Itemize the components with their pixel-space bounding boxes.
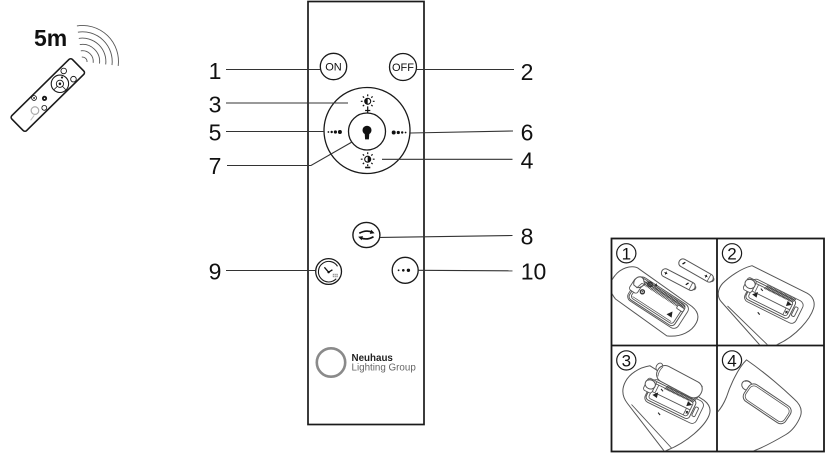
- svg-text:4: 4: [727, 351, 736, 370]
- line 8: [380, 236, 513, 238]
- line 4: [382, 158, 513, 160]
- dial outer (mini): [48, 71, 73, 96]
- numbers: [209, 58, 547, 285]
- svg-text:1: 1: [622, 244, 631, 263]
- brightness down icon: [361, 152, 375, 166]
- timer button: [316, 259, 342, 285]
- panel 3: sliding cover on: [623, 361, 710, 451]
- plus sign: [365, 108, 370, 113]
- dial outer circle: [324, 88, 410, 174]
- svg-text:5: 5: [209, 120, 222, 146]
- minus sign: [365, 167, 370, 169]
- signal waves from handheld remote: [77, 25, 119, 65]
- ON button: [320, 53, 346, 79]
- step number 4: [722, 351, 741, 370]
- step number 1: [617, 244, 636, 263]
- svg-text:8: 8: [521, 224, 534, 250]
- line 1: [226, 69, 320, 71]
- svg-text:6: 6: [521, 120, 534, 146]
- dial center dot: [58, 82, 62, 86]
- svg-text:10: 10: [521, 259, 547, 285]
- line 2: [417, 69, 515, 71]
- dial tick marks: [54, 84, 66, 96]
- line 5: [226, 131, 324, 133]
- ON button (mini): [60, 67, 68, 75]
- remote body: [10, 58, 85, 133]
- line 6: [411, 131, 514, 133]
- svg-text:OFF: OFF: [392, 62, 414, 74]
- svg-text:7: 7: [209, 153, 222, 179]
- brightness up icon: [361, 94, 375, 108]
- dial NE dot: [60, 76, 63, 79]
- OFF button (mini): [70, 75, 78, 83]
- svg-text:ON: ON: [325, 62, 342, 74]
- dial inner circle: [349, 113, 386, 150]
- small grid: [333, 274, 338, 277]
- logo ring (mini, gray): [30, 105, 41, 116]
- line 7: [227, 142, 352, 166]
- colour-cycle button: [353, 222, 380, 247]
- panel 4: cover closed: [712, 360, 801, 455]
- main remote body: [308, 2, 424, 425]
- panel 1: open compartment with two batteries: [611, 257, 716, 336]
- panel 2: batteries installed: [718, 266, 814, 346]
- clock hands: [324, 267, 332, 272]
- callout lines left: [226, 70, 514, 271]
- dial inner (mini): [55, 79, 65, 89]
- line 3: [226, 102, 348, 104]
- svg-text:5m: 5m: [34, 25, 67, 51]
- line 9: [226, 270, 316, 272]
- timer button (mini): [31, 95, 38, 102]
- Neuhaus logo ring: [317, 348, 345, 376]
- svg-text:3: 3: [209, 92, 222, 118]
- battery instruction panels grid: [612, 239, 825, 452]
- line 10: [418, 269, 512, 272]
- dots button: [392, 257, 418, 283]
- step number 2: [722, 244, 741, 263]
- bulb icon (center): [363, 126, 372, 140]
- svg-text:3: 3: [622, 351, 631, 370]
- OFF button: [390, 54, 417, 81]
- svg-text:1: 1: [209, 58, 222, 84]
- step number 3: [617, 351, 636, 370]
- svg-text:4: 4: [521, 148, 534, 174]
- handheld remote (tilted, top-left): [10, 58, 85, 133]
- svg-text:2: 2: [727, 244, 736, 263]
- svg-text:9: 9: [209, 259, 222, 285]
- left dots (dim): [328, 130, 342, 134]
- dots button (mini): [41, 104, 48, 111]
- right dots (bright): [392, 131, 407, 135]
- svg-text:Lighting Group: Lighting Group: [352, 362, 417, 373]
- mode button (mini, filled): [41, 95, 48, 102]
- cycle arrows icon: [359, 231, 373, 239]
- svg-text:2: 2: [521, 59, 534, 85]
